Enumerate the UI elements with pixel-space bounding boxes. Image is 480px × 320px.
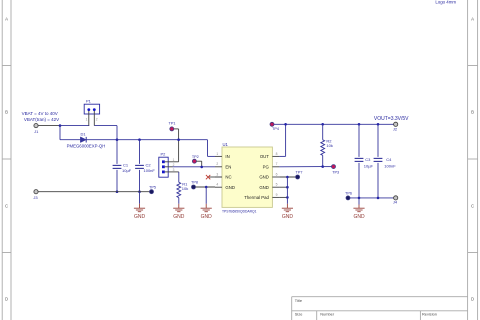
svg-text:A: A [5, 17, 8, 22]
svg-text:2: 2 [216, 162, 218, 166]
svg-text:GND: GND [353, 214, 365, 220]
wire to D1 [60, 139, 80, 141]
wire R2 to PG net [322, 155, 324, 166]
svg-text:C1: C1 [123, 163, 129, 168]
capacitor C2 [135, 165, 144, 168]
junction rail C2 [138, 138, 141, 141]
svg-text:D: D [471, 297, 474, 302]
svg-text:P2: P2 [161, 152, 167, 157]
wire junction down to gnd [205, 187, 207, 204]
pin 3 NC stub [215, 176, 222, 178]
wire to TP3 [323, 166, 332, 168]
junction VIN split [59, 124, 62, 127]
svg-text:GND: GND [259, 185, 269, 190]
svg-text:100nF: 100nF [384, 164, 396, 169]
svg-text:B: B [5, 110, 8, 115]
test point TP7 [296, 175, 300, 179]
junction bus top [286, 176, 289, 179]
resistor R1 [177, 182, 181, 197]
svg-text:1: 1 [86, 118, 88, 122]
wire TP2 right [196, 160, 201, 162]
wire TP1 down to P2 pin1 [178, 129, 180, 162]
wire to IN pin [208, 155, 216, 157]
ground under pin4 [201, 204, 212, 212]
test point TP8 [192, 185, 196, 189]
wire thermal pad to bus [279, 196, 287, 198]
svg-text:IN: IN [225, 154, 229, 159]
svg-text:C2: C2 [146, 163, 152, 168]
svg-text:PG: PG [263, 164, 270, 169]
wire J1 to node VIN [38, 125, 60, 127]
pin 7 PG stub [272, 166, 279, 168]
wire P2 pin2 to EN pin [173, 166, 216, 168]
wire gnd rail J3 to TP5 [38, 191, 151, 193]
svg-text:TP4: TP4 [272, 127, 279, 131]
wire rail down to IN [207, 140, 209, 157]
wire TP8 to GND pin [196, 186, 216, 188]
wire rail to C3 [358, 124, 360, 157]
wire C2 to gnd rail [139, 170, 141, 192]
svg-text:Size: Size [295, 312, 303, 317]
svg-text:2: 2 [96, 118, 98, 122]
wire rail to C2 [139, 140, 141, 164]
op IC U1 body [222, 147, 272, 207]
no-ERC cross on NC pin [209, 176, 222, 178]
capacitor C4 [374, 158, 383, 161]
svg-text:100nF: 100nF [144, 168, 156, 173]
wire gnd bus [286, 177, 288, 204]
wire OUT pin [279, 155, 285, 157]
wire P1 pin2 to corner [94, 125, 117, 127]
svg-text:GND: GND [201, 214, 213, 220]
junction R2 top [321, 123, 324, 126]
wire C4 to bottom rail [377, 163, 379, 198]
test point TP3 [332, 165, 336, 169]
svg-text:10µF: 10µF [364, 164, 374, 169]
title block [292, 297, 468, 320]
wire C3 to bottom rail [358, 163, 360, 198]
junction bus pin5 [286, 186, 289, 189]
junction gnd drop pin4 [205, 186, 208, 189]
svg-text:10k: 10k [326, 143, 332, 148]
junction rail / D1 / C1 [116, 138, 119, 141]
svg-text:5: 5 [276, 183, 278, 187]
svg-text:VOUT=3.3V/5V: VOUT=3.3V/5V [374, 116, 409, 122]
wire corner down to rail [116, 126, 118, 140]
junction C3 top [358, 123, 361, 126]
svg-text:EN: EN [225, 164, 231, 169]
svg-text:GND: GND [225, 185, 235, 190]
wire D1 cathode to rail node [86, 139, 117, 141]
junction C4 top [377, 123, 380, 126]
ground under R1 [173, 204, 184, 212]
svg-text:Title: Title [295, 298, 302, 303]
header P2 [159, 157, 168, 177]
svg-text:D1: D1 [80, 132, 86, 137]
svg-text:TP6: TP6 [345, 191, 352, 195]
wire rail to C4 [377, 124, 379, 157]
connector J1 [34, 124, 38, 128]
wire C1 to gnd rail [116, 170, 118, 192]
svg-text:4: 4 [216, 183, 218, 187]
svg-text:U1: U1 [223, 142, 229, 147]
svg-text:10k: 10k [182, 186, 188, 191]
resistor R2 [321, 140, 325, 156]
wire pin6 to TP7 [279, 176, 297, 178]
connector J2 [394, 122, 398, 126]
junction C4 bottom [377, 197, 380, 200]
svg-text:10µF: 10µF [122, 168, 132, 173]
svg-text:8: 8 [276, 152, 278, 156]
wire R1 to gnd [178, 198, 180, 204]
svg-text:TPS7B6950QDDARQ1: TPS7B6950QDDARQ1 [222, 208, 257, 213]
test point TP5 [150, 190, 154, 194]
pin 5 GND stub [272, 186, 279, 188]
pin 6 GND stub [272, 176, 279, 178]
svg-text:C4: C4 [386, 157, 392, 162]
ground under IC [282, 204, 293, 212]
test point TP2 [192, 159, 196, 163]
svg-text:7: 7 [276, 162, 278, 166]
diode D1 [80, 137, 86, 143]
wire input rail [117, 139, 208, 141]
junction bus thermal [286, 196, 289, 199]
wire OUT riser [285, 124, 287, 156]
wire VIN to P1 pin1 [60, 125, 89, 127]
wire PG pin to R2 bottom [279, 166, 322, 168]
svg-text:TP8: TP8 [191, 181, 198, 185]
svg-text:Thermal Pad: Thermal Pad [244, 195, 269, 200]
svg-text:VBAT = 4V to 40V: VBAT = 4V to 40V [22, 111, 58, 116]
test point TP6 [346, 196, 350, 200]
wire TP2 down to EN net [201, 161, 203, 167]
svg-text:TP3: TP3 [332, 170, 339, 174]
test point TP1 [170, 127, 174, 131]
wire VIN down to D1 anode [59, 126, 61, 140]
pin 9 Thermal Pad stub [272, 196, 279, 198]
wire down to gnd symbol [139, 192, 141, 204]
svg-text:TP1: TP1 [169, 122, 176, 126]
svg-text:Logo 4mm: Logo 4mm [435, 0, 456, 4]
ground under C2 [134, 204, 145, 212]
connector J4 [394, 196, 398, 200]
svg-text:NC: NC [225, 175, 231, 180]
svg-text:3: 3 [216, 172, 218, 176]
svg-text:6: 6 [276, 172, 278, 176]
svg-text:P1: P1 [86, 98, 92, 103]
capacitor C1 [113, 165, 122, 168]
jumper header P1 [84, 104, 99, 114]
svg-text:1: 1 [216, 152, 218, 156]
svg-text:9: 9 [276, 193, 278, 197]
junction TP2 on EN net [200, 166, 203, 169]
svg-text:GND: GND [259, 175, 269, 180]
svg-text:OUT: OUT [260, 154, 269, 159]
svg-text:GND: GND [173, 214, 185, 220]
svg-text:D: D [5, 297, 8, 302]
test point TP4 [270, 122, 274, 126]
pin 1 IN stub [215, 155, 222, 157]
wire TP1 right [174, 128, 179, 130]
ground output [353, 205, 364, 212]
wire rail to C1 [116, 140, 118, 164]
junction C1 gnd rail [116, 190, 119, 193]
svg-text:TP2: TP2 [192, 155, 199, 159]
wire bottom output rail [350, 197, 394, 199]
svg-text:C: C [5, 204, 8, 209]
pin 4 GND stub [215, 186, 222, 188]
svg-text:B: B [471, 110, 474, 115]
svg-text:PMEG6000EXP-QH: PMEG6000EXP-QH [67, 143, 106, 148]
svg-text:Revision: Revision [422, 312, 437, 317]
wire VOUT rail [274, 123, 394, 125]
svg-text:Number: Number [320, 312, 335, 317]
wire P2 pin3 down to R1 [178, 172, 180, 182]
svg-text:C3: C3 [365, 157, 371, 162]
svg-text:TP7: TP7 [296, 170, 303, 174]
connector J3 [34, 190, 38, 194]
svg-text:A: A [471, 17, 474, 22]
svg-text:1: 1 [173, 158, 175, 162]
svg-text:3: 3 [173, 168, 175, 172]
junction PG R2 [321, 165, 324, 168]
junction C2 gnd rail [138, 190, 141, 193]
wire pin5 to bus [279, 186, 287, 188]
junction OUT on rail [284, 123, 287, 126]
svg-text:GND: GND [134, 214, 146, 220]
pin 2 EN stub [215, 166, 222, 168]
svg-text:GND: GND [282, 214, 294, 220]
svg-text:TP5: TP5 [149, 185, 156, 189]
svg-text:C: C [471, 204, 474, 209]
junction TP1 riser on rail [177, 138, 180, 141]
junction C3 bottom [358, 197, 361, 200]
capacitor C3 [355, 158, 364, 161]
wire rail to R2 [322, 124, 324, 140]
svg-text:VBAT(tran) = 42V: VBAT(tran) = 42V [24, 117, 59, 122]
wire to gnd right [358, 198, 360, 205]
pin 8 OUT stub [272, 155, 279, 157]
